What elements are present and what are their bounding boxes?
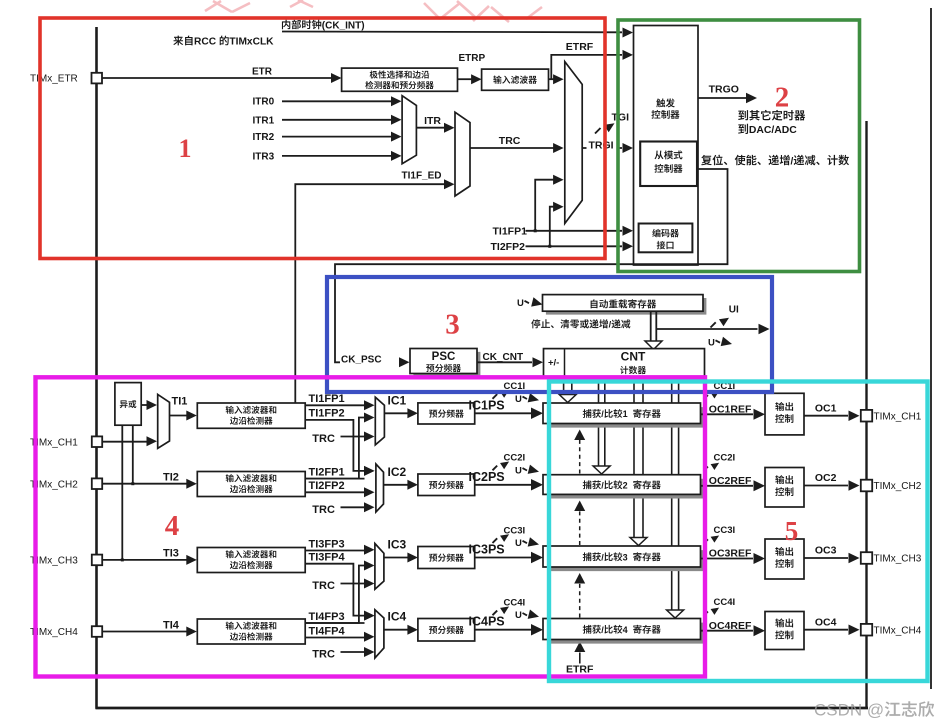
wire IC2PS to capture compare register: [469, 470, 544, 491]
svg-text:TI3FP4: TI3FP4: [309, 552, 346, 564]
wire TI1: [170, 396, 197, 421]
svg-text:ITR3: ITR3: [253, 152, 275, 163]
bus CNT to capture compare register 4: [667, 377, 684, 619]
box prescaler channel 1: [418, 403, 475, 424]
svg-text:TRC: TRC: [312, 580, 335, 592]
box input filter edge detector channel 3: [197, 548, 305, 573]
mux IC1 select: [375, 397, 384, 445]
svg-text:TI3: TI3: [163, 548, 179, 560]
overlay region 3 blue box: [327, 277, 772, 392]
box encoder interface: [639, 224, 693, 253]
wire TI3FP4 crossover: [305, 552, 374, 621]
box input filter ETR: [482, 69, 549, 90]
mux TRC select: [455, 112, 470, 196]
mux IC2 select: [376, 464, 384, 512]
wire TRC row 1: [312, 432, 374, 446]
wire OC1REF: [701, 404, 766, 420]
svg-text:RCC: RCC: [194, 37, 217, 48]
left pin rail: [95, 27, 98, 709]
mux ITR select: [402, 96, 416, 164]
svg-text:TI1FP1: TI1FP1: [493, 226, 528, 238]
svg-text:1: 1: [623, 409, 628, 419]
event CC1I right: [704, 381, 736, 400]
wire TI1FP1 to TRGI mux and encoder: [493, 175, 634, 238]
pin TIMx_CH1 left: [30, 436, 102, 448]
wire CK_CNT: [477, 352, 543, 368]
event CC2I right: [704, 452, 736, 471]
svg-text:DAC/ADC: DAC/ADC: [749, 125, 797, 136]
wire TI1F_ED: [295, 171, 454, 403]
wire ETRF to trigger and TRGI mux: [549, 41, 634, 84]
svg-text:TRC: TRC: [312, 649, 335, 661]
wire ITR3: [253, 151, 402, 163]
svg-text:4: 4: [623, 625, 628, 635]
box input filter edge detector channel 4: [197, 619, 305, 644]
svg-text:CC4I: CC4I: [714, 597, 736, 608]
svg-text:TI2FP1: TI2FP1: [309, 466, 345, 478]
svg-text:ETR: ETR: [252, 67, 273, 78]
svg-text:TIMxCLK: TIMxCLK: [229, 37, 274, 48]
mux TI1 edge select: [158, 394, 170, 448]
wire ITR2: [253, 132, 402, 143]
svg-text:TI2FP2: TI2FP2: [309, 480, 345, 492]
svg-text:IC1: IC1: [388, 393, 407, 407]
bus CNT to capture compare register 2: [593, 377, 610, 475]
svg-text:2: 2: [775, 82, 790, 114]
wire slave mode to CK_PSC path: [335, 169, 728, 367]
svg-text:CK_CNT: CK_CNT: [483, 352, 524, 363]
label number 1: [179, 134, 192, 163]
wire XOR output to TI1 mux: [141, 400, 157, 410]
pin TIMx_CH3 right: [861, 552, 922, 565]
label number 3: [445, 309, 460, 341]
mux IC4 select: [375, 610, 384, 658]
right figure edge line: [930, 8, 932, 689]
svg-text:U: U: [708, 338, 715, 349]
wire TRC row 3: [312, 579, 374, 593]
event CC4I left: [493, 598, 526, 616]
dashed capture arrow register 2 to counter: [574, 501, 585, 546]
wire ITR1: [253, 115, 402, 127]
wire TI2FP1 crossover up: [305, 413, 374, 479]
overlay region 5 cyan box: [549, 382, 928, 682]
wire TI2FP2 crossover: [305, 480, 374, 497]
svg-text:IC3: IC3: [388, 538, 407, 552]
pin TIMx_CH2 right: [861, 480, 922, 493]
event arrow TGI: [595, 120, 617, 134]
svg-text:TRC: TRC: [312, 433, 335, 445]
svg-text:TIMx_ETR: TIMx_ETR: [30, 74, 78, 85]
wire TI4FP3 crossover up: [305, 561, 374, 624]
box input filter edge detector channel 2: [197, 472, 305, 497]
box prescaler channel 4: [418, 619, 475, 642]
wire TI1FP2 crossover: [305, 408, 374, 476]
svg-text:CC2I: CC2I: [714, 452, 736, 463]
wire OC2REF: [701, 475, 766, 491]
label number 4: [165, 510, 180, 542]
overlay region 2 green box: [618, 20, 860, 272]
svg-text:OC2REF: OC2REF: [709, 475, 752, 487]
wire OC4: [804, 616, 860, 635]
wire TI4FP3: [305, 611, 374, 623]
svg-text:IC3PS: IC3PS: [469, 543, 505, 557]
pin TIMx_CH4 right: [861, 624, 922, 637]
svg-text:ETRP: ETRP: [459, 53, 486, 64]
svg-text:CSDN @: CSDN @: [814, 701, 884, 720]
label stop clear updown: [531, 319, 630, 329]
wire OC3: [804, 545, 860, 564]
wire ARR to CNT double line: [645, 311, 662, 349]
wire ITR0: [253, 96, 402, 107]
wire OC1: [804, 402, 860, 421]
svg-text:3: 3: [623, 552, 628, 562]
svg-text:+/-: +/-: [548, 358, 559, 369]
svg-text:OC2: OC2: [815, 472, 837, 484]
svg-text:ITR0: ITR0: [253, 97, 275, 108]
wire TRC from mux: [470, 135, 564, 153]
wire TI2FP2 to TRGI mux and encoder: [491, 202, 634, 253]
label internal clock CK_INT: [282, 20, 365, 32]
mux IC3 select: [375, 544, 384, 590]
wire TI4: [102, 619, 197, 636]
wire TI1FP1: [305, 393, 374, 410]
bus CNT to capture compare register 3: [630, 377, 647, 546]
svg-text:TI4: TI4: [163, 619, 180, 631]
bottom border: [96, 707, 869, 710]
label reset enable up down count: [701, 155, 849, 168]
svg-text:TI2: TI2: [163, 472, 179, 484]
svg-text:U: U: [517, 298, 524, 309]
box output control 3: [765, 539, 804, 579]
event CC2I left: [493, 453, 526, 471]
wire TRC row 2: [312, 502, 374, 516]
svg-text:IC2PS: IC2PS: [469, 470, 505, 484]
svg-text:OC3REF: OC3REF: [709, 548, 752, 560]
svg-text:(CK_INT): (CK_INT): [322, 20, 365, 31]
svg-text:ITR1: ITR1: [253, 116, 275, 127]
right pin rail: [865, 121, 867, 709]
wire TRGO: [698, 84, 757, 104]
svg-text:2: 2: [623, 480, 628, 490]
svg-text:ITR2: ITR2: [253, 132, 275, 143]
pin TIMx_CH1 right: [861, 410, 922, 423]
svg-text:TI1: TI1: [172, 396, 188, 408]
box output control 2: [765, 468, 804, 508]
svg-text:ETRF: ETRF: [566, 41, 594, 53]
svg-text:UI: UI: [729, 305, 739, 316]
label CK_PSC: [340, 353, 392, 366]
svg-text:ITR: ITR: [424, 115, 441, 127]
wire IC3: [384, 538, 418, 563]
update event U register 1: [515, 393, 540, 405]
update event U below: [708, 337, 733, 349]
svg-text:OC1REF: OC1REF: [709, 404, 752, 416]
svg-text:IC2: IC2: [388, 465, 407, 479]
svg-text:/: /: [791, 156, 794, 167]
svg-text:TRC: TRC: [312, 504, 335, 516]
wire ITR: [416, 115, 454, 133]
svg-text:TI2FP2: TI2FP2: [491, 241, 526, 253]
box slave mode controller: [640, 142, 697, 187]
pin TIMx_CH4 left: [30, 626, 102, 638]
pin TIMx_ETR: [30, 73, 102, 85]
overlay region 4 magenta box: [36, 377, 706, 676]
pin TIMx_CH2 left: [30, 478, 102, 490]
wire TI3FP3: [305, 538, 374, 554]
update event U register 4: [515, 610, 540, 622]
svg-text:PSC: PSC: [432, 351, 456, 363]
label from RCC TIMxCLK: [173, 36, 274, 48]
label TRGI: [587, 139, 618, 152]
svg-text:TIMx_CH4: TIMx_CH4: [874, 625, 922, 636]
wire IC1PS to capture compare register: [469, 398, 544, 419]
bus CNT to capture compare register 1: [559, 377, 576, 403]
box capture compare register 3: [543, 546, 705, 571]
svg-text:U: U: [515, 538, 522, 549]
wire TIMx_CH1 to TI1 mux: [102, 436, 157, 446]
svg-text:ETRF: ETRF: [566, 664, 594, 676]
svg-text:OC3: OC3: [815, 545, 837, 557]
wire TRGI output: [582, 112, 633, 154]
svg-text:TI4FP3: TI4FP3: [309, 611, 345, 623]
svg-text:TIMx_CH3: TIMx_CH3: [874, 554, 922, 565]
pink watermark strokes top: [205, 0, 542, 22]
box counter CNT: [544, 349, 705, 377]
svg-text:CC3I: CC3I: [714, 525, 736, 536]
overlay region 1 red box: [40, 18, 605, 259]
event CC4I right: [704, 597, 736, 616]
svg-text:U: U: [515, 610, 522, 621]
svg-text:TIMx_CH2: TIMx_CH2: [874, 481, 922, 492]
svg-text:IC4: IC4: [388, 610, 407, 624]
svg-text:TI3FP3: TI3FP3: [309, 538, 345, 550]
box input filter edge detector channel 1: [197, 403, 305, 428]
svg-text:OC4REF: OC4REF: [709, 620, 752, 632]
label number 2: [775, 82, 790, 114]
box capture compare register 2: [543, 475, 705, 499]
box polarity selector edge detector prescaler: [342, 68, 458, 91]
svg-text:CNT: CNT: [621, 350, 646, 364]
box capture compare register 4: [543, 619, 705, 644]
wire ETRF into capture compare register 4: [566, 642, 594, 676]
svg-text:TI1F_ED: TI1F_ED: [402, 171, 442, 182]
event CC3I left: [493, 525, 526, 543]
event CC3I right: [704, 525, 736, 544]
wire CK_INT to trigger controller: [282, 28, 633, 38]
svg-text:CK_PSC: CK_PSC: [341, 354, 382, 365]
svg-text:TI1FP2: TI1FP2: [309, 408, 345, 420]
svg-text:OC1: OC1: [815, 402, 837, 414]
box trigger controller container: [634, 26, 699, 266]
update event U register 2: [515, 465, 540, 477]
svg-text:3: 3: [445, 309, 460, 341]
wire update event to right: [656, 324, 769, 335]
wire OC2: [804, 472, 860, 491]
label trigger controller: [651, 98, 679, 118]
svg-text:U: U: [515, 394, 522, 405]
update event U into ARR: [517, 297, 544, 309]
wire ETRP: [458, 53, 486, 84]
box prescaler channel 3: [418, 547, 475, 569]
svg-text:TIMx_CH1: TIMx_CH1: [874, 411, 922, 422]
svg-text:TI1FP1: TI1FP1: [309, 393, 345, 405]
box output control 4: [765, 612, 804, 650]
svg-text:TRGI: TRGI: [589, 140, 614, 152]
wire TI3: [102, 548, 197, 565]
svg-text:TRGO: TRGO: [709, 84, 739, 96]
svg-text:/: /: [609, 320, 612, 330]
wire OC4REF: [701, 620, 766, 636]
box prescaler channel 2: [418, 474, 475, 496]
box XOR: [115, 383, 141, 426]
svg-text:TRC: TRC: [499, 135, 521, 147]
svg-text:5: 5: [785, 516, 799, 546]
svg-text:1: 1: [179, 134, 192, 163]
pin TIMx_CH3 left: [30, 555, 102, 567]
wire IC1: [384, 393, 418, 418]
wire IC2: [384, 465, 418, 490]
svg-text:TGI: TGI: [612, 112, 630, 124]
wire ETR: [102, 67, 342, 84]
svg-text:OC4: OC4: [815, 616, 837, 628]
svg-text:IC4PS: IC4PS: [469, 615, 505, 629]
label number 5: [785, 516, 799, 546]
dashed capture arrow register 3 to counter: [574, 573, 585, 618]
event CC1I left: [493, 381, 526, 399]
box output control 1: [765, 393, 804, 435]
wire IC3PS to capture compare register: [469, 543, 544, 564]
svg-text:TI4FP4: TI4FP4: [309, 625, 346, 637]
box prescaler PSC: [410, 349, 480, 377]
wire TRC row 4: [312, 647, 374, 661]
dashed capture arrow register 1 to counter: [574, 430, 585, 474]
watermark CSDN: [814, 701, 934, 720]
wire TI2FP1: [305, 466, 374, 479]
mux TRGI select: [565, 62, 582, 224]
svg-text:U: U: [515, 465, 522, 476]
wires XOR inputs from TI1 TI2 TI3: [121, 425, 135, 561]
svg-text:4: 4: [165, 510, 180, 542]
update event U register 3: [515, 537, 540, 549]
box auto-reload register ARR: [543, 295, 707, 315]
svg-text:IC1PS: IC1PS: [469, 398, 505, 412]
label to other timers to DAC ADC: [738, 110, 805, 121]
label UI and event arrow: [711, 305, 740, 328]
wire IC4PS to capture compare register: [469, 615, 544, 636]
wire OC3REF: [701, 548, 766, 564]
wire TI2: [102, 472, 197, 489]
box capture compare register 1: [543, 403, 705, 428]
wire IC4: [384, 610, 418, 635]
wire TI4FP4 crossover: [305, 625, 374, 642]
